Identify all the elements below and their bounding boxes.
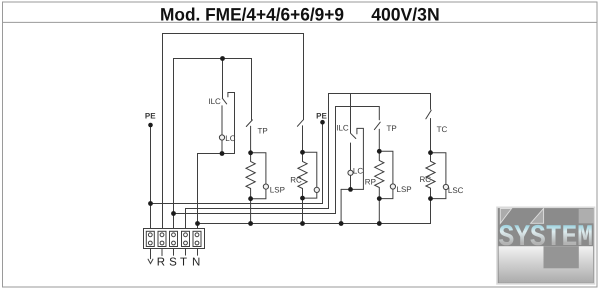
wire N phase: terminal N up to LC node bbox=[197, 154, 199, 229]
svg-text:LSP: LSP bbox=[270, 185, 285, 194]
junction RC at N bus bbox=[300, 221, 305, 226]
terminal cell 2 bbox=[158, 231, 166, 246]
junction TP top bbox=[248, 150, 253, 155]
wire RC branch to N bus bbox=[302, 198, 304, 223]
contact LC right circle bbox=[348, 170, 353, 175]
wire ILC right to LC bbox=[350, 143, 352, 170]
svg-text:ILC: ILC bbox=[208, 97, 221, 106]
terminal screws column 3 bbox=[172, 233, 176, 237]
wire R phase feed: terminal R up, across top, down right side to RC switch bbox=[163, 34, 304, 229]
svg-text:LC: LC bbox=[353, 167, 363, 176]
lamp LSP right branch bbox=[379, 151, 393, 184]
terminal screws column 2 bbox=[160, 233, 164, 237]
lamp LSC branch bbox=[431, 153, 446, 185]
svg-text:R: R bbox=[157, 257, 165, 269]
terminal screws column 1 bbox=[148, 233, 152, 237]
terminal screws column 5 bbox=[195, 233, 199, 237]
junction TC top bbox=[428, 150, 433, 155]
svg-text:TP: TP bbox=[387, 124, 397, 133]
wire ILC right tap bbox=[350, 94, 352, 133]
wire RP branch to N bus bbox=[378, 199, 380, 224]
wire TP lower bbox=[250, 126, 252, 153]
switch RC blade bbox=[297, 120, 303, 126]
svg-text:S: S bbox=[169, 257, 177, 269]
junction PE left point bbox=[148, 123, 153, 128]
junction RP bottom bbox=[377, 196, 382, 201]
wire TC lower bbox=[430, 119, 432, 153]
switch TP blade bbox=[246, 120, 252, 127]
wire TP right lower bbox=[378, 129, 380, 151]
svg-text:RC: RC bbox=[290, 175, 302, 184]
right outer box top and right edge down to TC switch bbox=[329, 94, 431, 110]
switch ILC right blade bbox=[351, 133, 356, 138]
lamp branch beside RC bbox=[303, 152, 317, 187]
svg-text:LC: LC bbox=[225, 134, 235, 143]
terminal cell 1 bbox=[146, 231, 154, 246]
bus N bbox=[198, 199, 431, 224]
lamp LSP branch bbox=[251, 153, 266, 184]
wire stub under S bbox=[173, 249, 175, 256]
wire N horizontal under right LC bbox=[341, 188, 363, 190]
bus S phase to right group inner box bbox=[174, 107, 336, 214]
right inner box top, down to right TP switch bbox=[336, 107, 380, 120]
junction LC right node bbox=[348, 187, 353, 192]
junction N bus left bbox=[195, 221, 200, 226]
switch TC blade bbox=[426, 110, 431, 119]
resistor RP bbox=[375, 151, 384, 198]
resistor RC right bbox=[426, 153, 435, 199]
lamp LSP right circle bbox=[390, 184, 395, 189]
svg-text:T: T bbox=[180, 257, 187, 269]
svg-text:PE: PE bbox=[145, 112, 156, 121]
junction TP at N bus bbox=[248, 221, 253, 226]
junction ILC tap bbox=[220, 56, 225, 61]
wire TP branch to N bus bbox=[250, 199, 252, 224]
resistor under TP bbox=[246, 153, 255, 199]
wire LC to node bbox=[221, 140, 223, 153]
junction S bus left bbox=[171, 211, 176, 216]
PE earth lead and arrowhead bbox=[148, 249, 153, 264]
wire PE left: dot down to terminal bbox=[150, 127, 152, 229]
terminal cell 4 bbox=[182, 231, 190, 246]
wire stub under R bbox=[161, 249, 163, 256]
lamp circle beside RC bbox=[314, 187, 319, 192]
junction PE right point bbox=[320, 120, 325, 125]
wire stub under T bbox=[185, 249, 187, 256]
wire N horizontal under LC bbox=[198, 153, 235, 155]
svg-text:400V/3N: 400V/3N bbox=[371, 4, 440, 24]
svg-text:LSC: LSC bbox=[448, 186, 464, 195]
junction PE bus left bbox=[148, 201, 153, 206]
lamp LSC branch lower bbox=[431, 190, 446, 199]
lamp LSP right branch lower bbox=[379, 189, 393, 199]
lamp LSP circle bbox=[263, 184, 268, 189]
lamp branch lower beside RC bbox=[303, 193, 317, 199]
lamp LSP branch lower bbox=[251, 189, 266, 199]
junction TC bottom bbox=[428, 196, 433, 201]
svg-text:Mod. FME/4+4/6+6/9+9: Mod. FME/4+4/6+6/9+9 bbox=[160, 4, 344, 24]
junction RC top bbox=[300, 150, 305, 155]
junction LC node bbox=[220, 151, 225, 156]
svg-text:ILC: ILC bbox=[336, 123, 349, 132]
junction RP top bbox=[377, 149, 382, 154]
wire S phase feed: terminal S up, inner top edge, down to TP switch bbox=[174, 59, 252, 229]
svg-text:RP: RP bbox=[365, 177, 376, 186]
svg-text:SYSTEM: SYSTEM bbox=[499, 221, 594, 255]
svg-text:N: N bbox=[192, 257, 200, 269]
wire ILC tap from inner top bbox=[222, 59, 224, 98]
ILC right trip hook linkage bbox=[357, 128, 364, 189]
bus PE to right PE point bbox=[151, 124, 323, 203]
junction TP bottom bbox=[248, 196, 253, 201]
wire ILC to LC bbox=[221, 106, 223, 135]
contact LC circle bbox=[219, 135, 224, 140]
svg-text:RC: RC bbox=[420, 175, 432, 184]
wire RC lower bbox=[302, 126, 304, 153]
title band separator bbox=[3, 21, 598, 23]
lamp LSC circle bbox=[443, 184, 448, 189]
svg-text:TC: TC bbox=[437, 125, 448, 134]
svg-text:LSP: LSP bbox=[397, 185, 412, 194]
wire N drop right group bbox=[340, 189, 342, 223]
bus T phase: terminal T up and right to right group outer box bbox=[186, 94, 329, 229]
resistor RC bbox=[298, 152, 307, 198]
switch TP right blade bbox=[374, 122, 380, 129]
ILC trip hook linkage bbox=[228, 93, 235, 154]
junction RC bottom bbox=[300, 196, 305, 201]
watermark logo SYSTEM bbox=[497, 207, 595, 284]
terminal screws column 4 bbox=[184, 233, 188, 237]
svg-text:TP: TP bbox=[258, 127, 268, 136]
junction N drop at bus bbox=[339, 221, 344, 226]
terminal cell 3 bbox=[170, 231, 178, 246]
junction RP at N bus bbox=[377, 221, 382, 226]
svg-text:PE: PE bbox=[316, 112, 327, 121]
terminal cell 5 bbox=[193, 231, 201, 246]
switch ILC blade bbox=[222, 98, 226, 104]
wire stub under N bbox=[197, 249, 199, 256]
terminal block outer bbox=[144, 229, 205, 249]
wire LC right to node bbox=[350, 175, 352, 189]
